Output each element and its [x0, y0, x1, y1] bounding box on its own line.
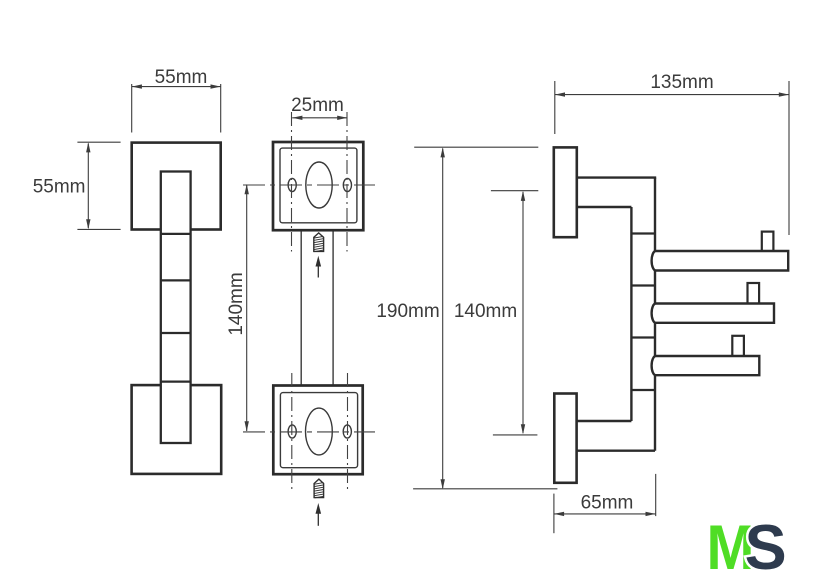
svg-text:65mm: 65mm [581, 493, 634, 514]
svg-text:55mm: 55mm [33, 177, 86, 198]
svg-text:190mm: 190mm [376, 301, 439, 322]
svg-text:25mm: 25mm [291, 95, 344, 116]
svg-text:140mm: 140mm [454, 301, 517, 322]
svg-text:135mm: 135mm [650, 72, 713, 93]
svg-text:140mm: 140mm [226, 272, 247, 335]
svg-text:55mm: 55mm [155, 67, 208, 88]
svg-text:S: S [745, 513, 787, 582]
